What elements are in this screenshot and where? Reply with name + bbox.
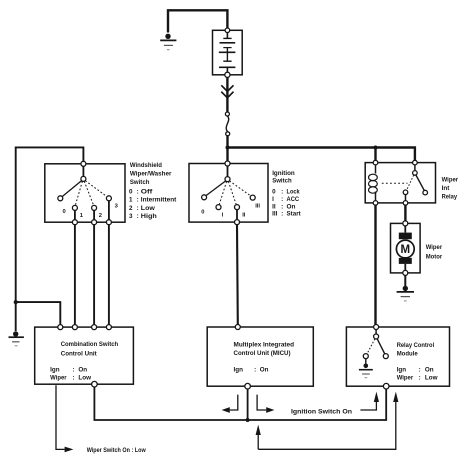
wiper switch blade to 0 [62, 181, 82, 197]
svg-text:Low: Low [425, 374, 438, 381]
svg-text:Switch: Switch [272, 177, 292, 184]
ignition switch legend [272, 170, 301, 218]
combination unit bottom terminal [92, 381, 98, 387]
relay switch common [413, 171, 418, 176]
svg-text:On: On [287, 203, 296, 210]
svg-text::: : [281, 203, 283, 210]
svg-text:High: High [141, 213, 157, 220]
motor bottom terminal [403, 270, 408, 275]
wiper switch contact 0 [58, 196, 63, 201]
wiper int relay box [365, 163, 435, 203]
svg-text:Ign: Ign [50, 367, 60, 374]
svg-text:Module: Module [397, 351, 418, 358]
arrow right below MICU [257, 395, 266, 410]
relay control module box [346, 327, 449, 386]
ignition contact III [250, 195, 255, 200]
svg-text:Relay Control: Relay Control [397, 342, 435, 349]
junction D [246, 418, 250, 422]
ground G1 [160, 34, 176, 50]
wiper switch contact 2 [92, 205, 97, 210]
svg-text:Low: Low [78, 374, 91, 381]
svg-text:Multiplex Integrated: Multiplex Integrated [234, 341, 295, 348]
svg-text:Windshield: Windshield [130, 162, 162, 169]
relay module left contact [363, 354, 368, 359]
wire MICU to bus [247, 389, 249, 420]
wire power feed to relay [228, 148, 415, 163]
combination unit top terminals [58, 325, 63, 330]
annotation wiper switch on low [56, 385, 65, 449]
svg-text:0: 0 [129, 188, 133, 195]
svg-text:0: 0 [272, 188, 276, 195]
svg-text:Motor: Motor [426, 253, 443, 260]
arrow into relay module [360, 402, 376, 410]
relay module dashed alternate [367, 339, 375, 354]
svg-text:On: On [425, 367, 434, 374]
relay module switch stub [375, 330, 377, 335]
ignition dashed positions [219, 181, 226, 204]
relay module text [397, 342, 438, 381]
wire motor to ground [404, 275, 406, 286]
wire battery to fuse [226, 77, 228, 112]
wire relay to motor [404, 205, 406, 221]
wiper motor label [426, 244, 443, 260]
ground G2 [9, 331, 24, 346]
relay module switch pivot [374, 334, 379, 339]
svg-text:Wiper: Wiper [442, 177, 459, 184]
ignition bottom terminal [235, 220, 240, 225]
wire fuse to ignition switch [226, 136, 228, 163]
relay module right contact [383, 354, 388, 359]
svg-text:Control Unit: Control Unit [61, 351, 98, 358]
svg-text:3: 3 [129, 213, 133, 220]
svg-text:Wiper: Wiper [426, 244, 443, 251]
svg-text:On: On [78, 367, 87, 374]
wiper switch contact 1 [72, 205, 77, 210]
svg-text:III: III [272, 211, 277, 218]
svg-text::: : [281, 188, 283, 195]
motor stub bottom [404, 264, 406, 271]
fuse [225, 112, 229, 136]
battery [213, 28, 243, 77]
relay contact stub [405, 195, 407, 201]
svg-text::: : [73, 367, 75, 374]
svg-text:II: II [242, 212, 246, 218]
junction B [374, 146, 378, 150]
svg-text:Lock: Lock [287, 188, 301, 195]
relay switch dashed alternate [407, 175, 414, 190]
wiper switch bottom terminals [72, 220, 77, 225]
svg-text:Control Unit (MICU): Control Unit (MICU) [234, 350, 291, 357]
wiper int relay label [442, 177, 459, 201]
svg-text:ACC: ACC [287, 196, 300, 203]
annotation line lower [258, 402, 396, 449]
svg-text::: : [137, 188, 139, 195]
ignition top terminal [225, 161, 230, 166]
svg-text:Ign: Ign [397, 367, 407, 374]
relay coil stub bottom [375, 192, 377, 201]
arrow up at bus junction [257, 435, 259, 449]
ignition contact II [235, 205, 240, 210]
combination unit text [50, 341, 118, 381]
arrow left below MICU [230, 395, 238, 410]
wire ignition to MICU [236, 225, 239, 325]
wiper switch legend [129, 162, 177, 220]
relay dashed link [382, 182, 408, 184]
svg-text::: : [281, 196, 283, 203]
svg-text:Ignition: Ignition [272, 170, 295, 177]
svg-text:Intermittent: Intermittent [141, 197, 177, 204]
motor brush bottom [399, 258, 412, 264]
ground G3 [397, 286, 414, 301]
svg-text:Switch: Switch [130, 179, 150, 186]
svg-text:2: 2 [99, 213, 102, 219]
svg-text::: : [137, 213, 139, 220]
ignition switch box [189, 164, 268, 223]
relay terminals [373, 160, 378, 165]
svg-text:I: I [272, 196, 274, 203]
relay switch stub [414, 165, 416, 171]
svg-text::: : [281, 211, 283, 218]
relay module blade [377, 339, 385, 354]
motor top terminal [403, 221, 408, 226]
svg-text:M: M [401, 244, 411, 256]
svg-text:Wiper/Washer: Wiper/Washer [130, 171, 172, 178]
svg-text:Relay: Relay [442, 194, 458, 201]
relay module internal ground [364, 364, 369, 369]
svg-text:2: 2 [129, 205, 133, 212]
svg-text::: : [419, 367, 421, 374]
svg-text:Ignition Switch On: Ignition Switch On [291, 408, 352, 415]
svg-text::: : [254, 367, 256, 374]
relay coil stub top [375, 165, 377, 174]
svg-text:Wiper Switch On : Low: Wiper Switch On : Low [87, 447, 146, 454]
combination switch control unit box [35, 327, 134, 384]
relay module top terminal [374, 325, 379, 330]
wiper motor box [391, 223, 421, 273]
relay switch NC contact [423, 190, 428, 195]
svg-text:II: II [272, 203, 276, 210]
wiper switch terminal T1 [81, 161, 86, 166]
svg-text::: : [137, 205, 139, 212]
svg-text:Low: Low [141, 205, 155, 212]
svg-text:III: III [255, 203, 260, 209]
motor stub top [404, 226, 406, 233]
svg-text:Start: Start [287, 211, 302, 218]
connector chevrons [221, 85, 233, 91]
relay switch blade [416, 175, 425, 191]
svg-text::: : [419, 374, 421, 381]
wires wiper switch to combination unit [74, 225, 76, 325]
ignition contact 0 [202, 195, 207, 200]
relay switch NO contact [403, 190, 408, 195]
svg-text:Wiper: Wiper [50, 374, 67, 381]
ignition common [225, 177, 230, 182]
wire junction B to relay coil [374, 148, 376, 163]
svg-text::: : [73, 374, 75, 381]
ignition stub II to bottom terminal [236, 210, 238, 220]
svg-text:On: On [260, 367, 269, 374]
relay coil loops [369, 174, 378, 180]
motor brush top [399, 233, 412, 240]
junction A [226, 146, 230, 150]
MICU top terminal [235, 325, 240, 330]
svg-text:0: 0 [201, 210, 204, 216]
relay module ground stub [365, 359, 367, 364]
MICU box [207, 327, 313, 386]
relay module bottom terminal [383, 383, 389, 389]
svg-text:Combination Switch: Combination Switch [61, 341, 119, 348]
wire wiper switch to left loop [16, 147, 84, 331]
svg-text:Int: Int [442, 185, 451, 192]
wiper switch stubs to bottom terminals [74, 210, 76, 219]
ignition blade to 0 [206, 181, 226, 196]
wire battery top to ground [168, 10, 227, 32]
bus combination unit to relay module [94, 387, 386, 420]
windshield wiper/washer switch box [45, 164, 125, 222]
svg-text:1: 1 [129, 197, 133, 204]
svg-text:Off: Off [141, 188, 154, 195]
junction C [14, 300, 18, 304]
wiper switch common [81, 176, 86, 181]
ignition contact I [216, 205, 221, 210]
svg-text:Ign: Ign [234, 367, 244, 374]
wiper switch dashed positions [75, 181, 82, 205]
svg-text:Wiper: Wiper [397, 374, 414, 381]
ignition common stub [227, 166, 229, 177]
wiper switch common stub [82, 166, 84, 176]
MICU text [234, 341, 295, 373]
wire relay coil to relay module [374, 205, 376, 324]
wiper switch contact 3 [106, 196, 111, 201]
MICU bottom terminal [245, 383, 251, 389]
motor M circle [396, 240, 414, 258]
svg-text::: : [137, 197, 139, 204]
wire junction C to combination unit [16, 302, 61, 325]
svg-text:0: 0 [63, 209, 66, 215]
